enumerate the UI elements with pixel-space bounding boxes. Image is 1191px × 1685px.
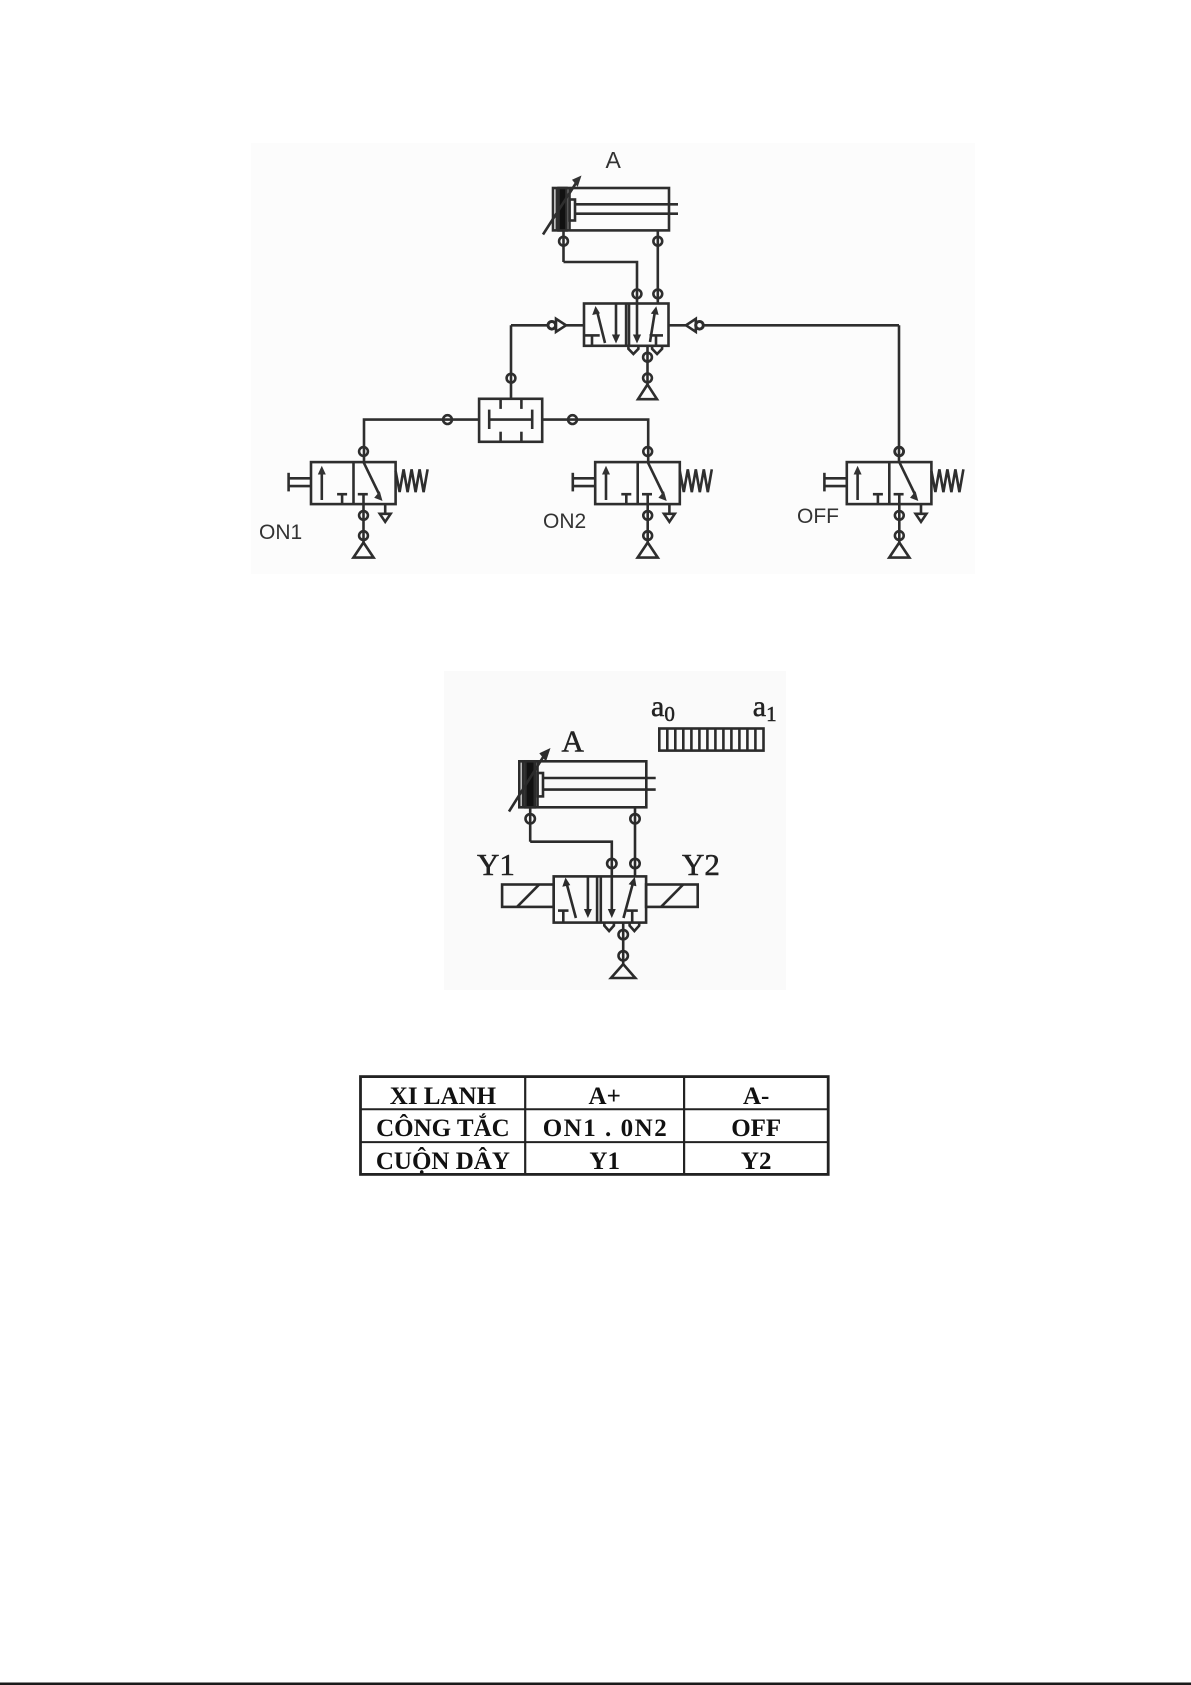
svg-text:Y1: Y1: [589, 1148, 620, 1175]
svg-text:OFF: OFF: [731, 1115, 781, 1142]
svg-text:XI LANH: XI LANH: [390, 1083, 497, 1110]
svg-text:Y2: Y2: [741, 1148, 772, 1175]
svg-text:A-: A-: [743, 1083, 769, 1110]
svg-text:OFF: OFF: [797, 505, 839, 528]
svg-text:Y2: Y2: [682, 847, 720, 882]
svg-text:ON1 . 0N2: ON1 . 0N2: [543, 1115, 667, 1142]
svg-text:ON2: ON2: [543, 510, 586, 533]
svg-text:A: A: [606, 147, 622, 173]
svg-text:ON1: ON1: [259, 521, 302, 544]
svg-text:CUỘN DÂY: CUỘN DÂY: [376, 1147, 510, 1175]
svg-text:Y1: Y1: [477, 847, 515, 882]
svg-text:A: A: [562, 724, 585, 759]
svg-text:CÔNG TẮC: CÔNG TẮC: [376, 1113, 510, 1142]
svg-text:A+: A+: [589, 1083, 621, 1110]
